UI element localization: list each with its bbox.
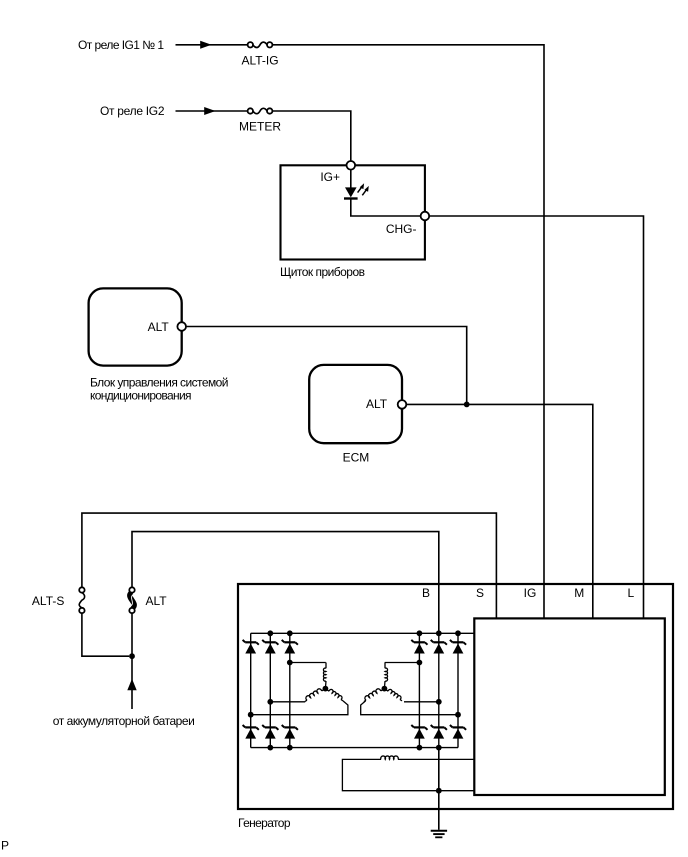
- svg-text:ALT-S: ALT-S: [32, 594, 64, 608]
- junction top bus col4: [417, 630, 423, 636]
- column wire D4: [418, 633, 420, 747]
- stator winding left (Y, 3-phase): [305, 663, 343, 702]
- column wire D1: [250, 633, 252, 747]
- svg-text:METER: METER: [239, 120, 281, 134]
- fuse ALT-IG: [248, 42, 273, 47]
- junction top bus col3: [287, 630, 293, 636]
- svg-text:ALT: ALT: [366, 397, 388, 411]
- label "Блок управления системой": [90, 375, 229, 389]
- svg-text:ALT: ALT: [148, 320, 170, 334]
- wire ECM ALT to generator M terminal: [406, 404, 593, 618]
- wire from battery: [131, 613, 133, 709]
- voltage regulator box: [474, 618, 665, 795]
- wire ALT-S fuse to battery junction: [82, 613, 129, 656]
- rectifier diode D5 (top, zener): [431, 640, 447, 654]
- wire phase tap left stator ph2: [270, 701, 305, 703]
- junction top bus col5 (B wire): [436, 630, 442, 636]
- fuse METER: [248, 108, 273, 113]
- label terminal "S": [476, 586, 484, 600]
- svg-text:от аккумуляторной батареи: от аккумуляторной батареи: [53, 714, 195, 728]
- terminal ALT of A/C unit: [177, 322, 186, 331]
- svg-text:ALT-IG: ALT-IG: [241, 53, 278, 67]
- svg-text:ALT: ALT: [146, 594, 168, 608]
- label "ALT-IG": [241, 53, 278, 67]
- terminal CHG-: [421, 212, 430, 221]
- column wire D2: [269, 633, 271, 747]
- svg-text:P: P: [1, 839, 9, 853]
- fuse ALT-S: [79, 587, 84, 613]
- svg-text:Блок управления системой: Блок управления системой: [90, 375, 229, 389]
- rectifier diode D4b (bottom, zener): [411, 725, 427, 739]
- rectifier diode D3 (top, zener): [282, 640, 298, 654]
- junction top bus col6: [455, 630, 461, 636]
- svg-text:Генератор: Генератор: [238, 816, 291, 830]
- rectifier diode D2 (top, zener): [262, 640, 278, 654]
- A/C control unit box: [89, 288, 182, 365]
- column wire D6: [457, 633, 459, 747]
- junction node A (A/C + ECM): [464, 402, 470, 408]
- arrow IG2 feed direction: [204, 107, 215, 115]
- stator winding right (Y, 3-phase): [364, 663, 402, 702]
- rectifier diode D3b (bottom, zener): [282, 725, 298, 739]
- rectifier diode D5b (bottom, zener): [431, 725, 447, 739]
- svg-text:кондиционирования: кондиционирования: [90, 389, 192, 403]
- junction battery node: [129, 653, 135, 659]
- rectifier diode D4 (top, zener): [411, 640, 427, 654]
- junction tap ph3 left: [248, 712, 254, 718]
- wire phase tap left stator ph3: [251, 701, 348, 715]
- junction bottom bus col4: [417, 745, 423, 751]
- wire rectifier bottom bus to ground: [438, 748, 440, 830]
- label "ALT" (fusible link): [146, 594, 168, 608]
- label "IG+": [320, 170, 340, 184]
- node label "От реле IG1 № 1": [78, 38, 164, 52]
- LED light arrows: [358, 183, 369, 195]
- label terminal "B": [422, 586, 430, 600]
- junction field coil / ground wire: [436, 788, 442, 794]
- label "Щиток приборов": [280, 265, 365, 279]
- wire charge lamp to terminal CHG-: [351, 199, 421, 217]
- svg-text:CHG-: CHG-: [386, 222, 417, 236]
- wire fusible link ALT to generator B terminal: [132, 532, 439, 634]
- junction tap ph1 right: [417, 660, 423, 666]
- rectifier diode D6 (top, zener): [450, 640, 466, 654]
- junction tap ph3 right: [455, 712, 461, 718]
- generator box "Генератор": [238, 584, 673, 809]
- label terminal "L": [628, 586, 635, 600]
- label "ALT" (A/C terminal): [148, 320, 170, 334]
- junction tap ph2 left: [267, 699, 273, 705]
- wire CHG- to generator L terminal: [429, 216, 644, 618]
- rectifier diode D1 (top, zener): [243, 640, 259, 654]
- svg-text:L: L: [628, 586, 635, 600]
- terminal ALT of ECM: [398, 400, 407, 409]
- wire phase tap left stator ph1: [290, 662, 326, 664]
- label "ALT-S": [32, 594, 64, 608]
- fusible link ALT: [129, 587, 134, 613]
- junction bottom bus col2: [267, 745, 273, 751]
- wire phase tap right stator ph1: [385, 662, 420, 664]
- label "CHG-": [386, 222, 417, 236]
- combination meter box "Щиток приборов": [281, 165, 425, 259]
- junction stator left neutral: [323, 686, 329, 692]
- label "кондиционирования": [90, 389, 192, 403]
- svg-text:IG: IG: [524, 586, 537, 600]
- rectifier diode D2b (bottom, zener): [262, 725, 278, 739]
- rectifier bottom bus: [251, 747, 458, 749]
- rectifier diode D1b (bottom, zener): [243, 725, 259, 739]
- label "ECM": [343, 451, 370, 465]
- label terminal "IG": [524, 586, 537, 600]
- column wire D3: [289, 633, 291, 747]
- rectifier diode D6b (bottom, zener): [450, 725, 466, 739]
- terminal IG+: [347, 161, 356, 170]
- node label "От реле IG2": [100, 104, 165, 118]
- junction tap ph1 left: [287, 660, 293, 666]
- label "METER": [239, 120, 281, 134]
- svg-text:IG+: IG+: [320, 170, 340, 184]
- wire fuse METER to terminal IG+: [273, 111, 351, 161]
- rectifier top bus (to regulator): [251, 632, 475, 634]
- label terminal "M": [574, 586, 584, 600]
- ECM box: [309, 365, 402, 443]
- rotor field coil circuit: [342, 756, 474, 791]
- column wire D5: [438, 633, 440, 747]
- wire fuse ALT-S to generator S terminal: [82, 513, 497, 618]
- junction stator right neutral: [382, 686, 388, 692]
- junction bottom bus col5 (ground wire): [436, 745, 442, 751]
- svg-text:Щиток приборов: Щиток приборов: [280, 265, 365, 279]
- wire fuse ALT-IG to generator IG terminal: [273, 45, 545, 619]
- wire phase tap right stator ph3: [361, 701, 458, 715]
- wire IG+ to charge lamp: [350, 169, 352, 187]
- svg-text:S: S: [476, 586, 484, 600]
- junction top bus col2: [267, 630, 273, 636]
- wire IG1 relay feed: [176, 44, 251, 46]
- junction bottom bus col3: [287, 745, 293, 751]
- svg-text:От реле IG1 № 1: От реле IG1 № 1: [78, 38, 164, 52]
- label page marker "P": [1, 839, 9, 853]
- ground symbol: [431, 831, 447, 838]
- charge warning lamp LED: [344, 187, 358, 198]
- svg-text:B: B: [422, 586, 430, 600]
- svg-text:От реле IG2: От реле IG2: [100, 104, 165, 118]
- wire IG2 relay feed: [176, 110, 251, 112]
- label "от аккумуляторной батареи": [53, 714, 195, 728]
- svg-text:M: M: [574, 586, 584, 600]
- arrow from battery: [127, 679, 136, 691]
- wire A/C ALT to node A: [186, 327, 467, 405]
- arrow IG1 feed direction: [200, 41, 211, 49]
- junction tap ph2 right: [436, 699, 442, 705]
- label "ALT" (ECM terminal): [366, 397, 388, 411]
- wire phase tap right stator ph2: [404, 701, 439, 703]
- label "Генератор": [238, 816, 291, 830]
- svg-text:ECM: ECM: [343, 451, 370, 465]
